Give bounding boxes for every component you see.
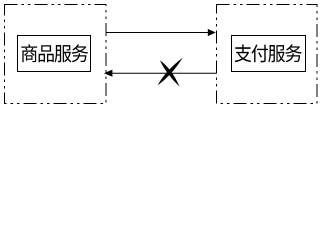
- dashed container: left system boundary: [5, 5, 107, 104]
- label text 商品服务: [21, 44, 88, 62]
- label text 支付服务: [235, 44, 302, 62]
- arrowhead: bottom arrow pointing left: [104, 70, 112, 77]
- wire: top request arrow line (left box to right box): [107, 32, 209, 34]
- arrowhead: top arrow pointing right: [208, 29, 216, 36]
- X mark: failure cross over bottom arrow: [158, 58, 183, 87]
- dashed container: right system boundary: [217, 5, 318, 104]
- box 支付服务 (payment service): [232, 36, 306, 72]
- wire: bottom response arrow line (right box to left box): [112, 72, 216, 74]
- box 商品服务 (product service): [18, 36, 91, 72]
